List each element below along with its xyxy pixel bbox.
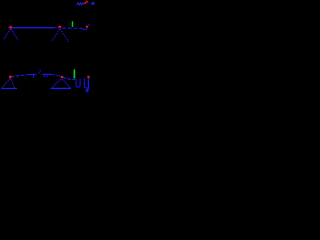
bottom middle triangle left leg [52,79,61,88]
small nub on line [49,74,52,76]
top-right red arrow blob [84,1,87,4]
svg-text:2: 2 [38,69,41,75]
tick above right end [88,24,90,26]
red dot 3 (right end of top lever) [86,26,88,28]
green force arrow (top) [72,21,74,27]
green force arrow (bottom) [73,69,75,78]
hanging U shape 1 [76,79,80,87]
bottom middle triangle base [51,87,71,89]
bottom fulcrum triangle dotted legs [2,79,9,87]
lever line L1 dashed continuation [62,27,82,29]
fulcrum triangle 2 (dotted legs) [52,30,59,42]
bottom lever right of label 2 [42,73,50,75]
tick below line a [32,75,34,78]
hook curve at right end of top lever [82,28,87,30]
top-right small blue vv [91,2,94,4]
hanging U shape 2 [84,78,88,89]
bottom lever descending then to right end [63,77,75,79]
bottom lever: left part rising from fulcrum (dashed) [10,75,28,77]
red pivot dot 1 (top left fulcrum) [9,26,12,29]
red pivot dot (bottom fulcrum) [9,76,12,79]
top-right zigzag squiggle [77,3,84,5]
red dot on bottom lever (middle) [61,76,64,79]
lever line L1 (solid) [8,27,54,29]
tick below line b [43,74,45,77]
downward force arrow at right end: shaft [87,78,89,89]
lever line L1 dim piece [55,27,58,29]
red dot at right end of bottom lever [87,76,90,79]
downward force arrow head [86,89,89,92]
bottom middle triangle right leg [62,79,70,88]
tick below line c [46,74,48,77]
red dot 2 (on top lever) [58,26,61,29]
bottom fulcrum triangle base [1,87,17,89]
fulcrum triangle 1 (dotted legs) [4,30,11,40]
